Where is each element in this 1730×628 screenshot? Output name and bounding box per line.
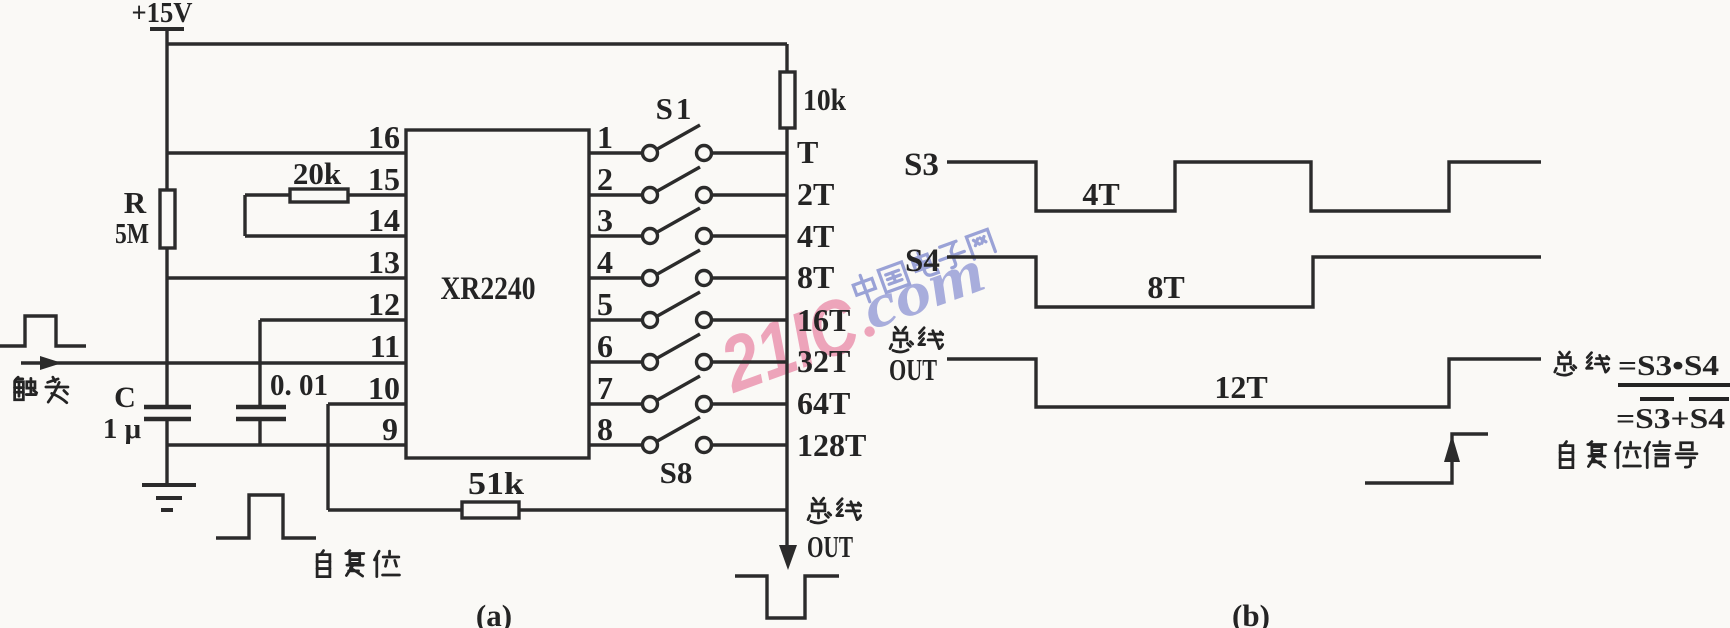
svg-text:12: 12 — [368, 286, 400, 322]
label 总线 (bus) — [808, 498, 861, 523]
wire main vertical from +15V — [165, 30, 168, 190]
svg-text:2T: 2T — [797, 176, 834, 212]
wire pin9 — [167, 443, 406, 446]
svg-text:20k: 20k — [293, 156, 342, 191]
switch row 4 — [589, 276, 642, 279]
svg-text:7: 7 — [597, 370, 613, 406]
wire 20k loop to pin14 — [245, 195, 406, 236]
svg-text:64T: 64T — [797, 385, 850, 421]
resistor 20k leads — [245, 193, 406, 196]
svg-text:=S3+S4: =S3+S4 — [1616, 403, 1725, 435]
wire top rail — [167, 42, 787, 45]
svg-text:XR2240: XR2240 — [441, 271, 536, 307]
IC XR2240 body — [406, 130, 589, 458]
svg-text:1 μ: 1 μ — [103, 413, 142, 445]
bus OUT arrowhead — [779, 545, 797, 570]
wire pin10 — [328, 404, 406, 510]
output pulse icon — [735, 576, 839, 618]
svg-text:S1: S1 — [656, 91, 695, 126]
svg-text:15: 15 — [368, 161, 400, 197]
svg-text:S8: S8 — [660, 455, 693, 490]
svg-text:5: 5 — [597, 286, 613, 322]
svg-text:S3: S3 — [904, 147, 939, 183]
svg-text:6: 6 — [597, 328, 613, 364]
svg-text:C: C — [114, 381, 136, 414]
reset arrowhead — [1444, 435, 1460, 462]
trigger arrowhead — [40, 356, 62, 370]
switch row 7 — [589, 402, 642, 405]
svg-text:14: 14 — [368, 202, 400, 238]
svg-text:10: 10 — [368, 370, 400, 406]
switch row 6 — [589, 360, 642, 363]
svg-text:12T: 12T — [1214, 369, 1267, 405]
svg-text:11: 11 — [370, 328, 400, 364]
label 自复位信号 — [1560, 442, 1697, 468]
switches S1-S8 — [589, 125, 787, 453]
svg-text:OUT: OUT — [807, 529, 853, 564]
svg-text:3: 3 — [597, 202, 613, 238]
label 触发 — [15, 377, 68, 403]
resistor 20k body — [290, 189, 348, 202]
svg-text:(a): (a) — [476, 598, 512, 628]
svg-text:0. 01: 0. 01 — [270, 367, 328, 402]
wire main vertical to ground — [165, 420, 168, 485]
capacitor 0.01 plates — [236, 407, 286, 419]
svg-text:=S3•S4: =S3•S4 — [1618, 350, 1719, 382]
power +15V terminal bar — [150, 27, 184, 31]
wire pin12 — [260, 320, 406, 406]
fraction bar — [1618, 383, 1730, 387]
svg-text:S4: S4 — [905, 243, 940, 279]
svg-text:T: T — [797, 134, 818, 170]
wire pin13 — [167, 276, 406, 279]
ground — [142, 485, 196, 510]
svg-text:8T: 8T — [797, 259, 834, 295]
capacitor C plates — [144, 407, 191, 419]
switch row 2 — [589, 193, 642, 196]
svg-text:13: 13 — [368, 244, 400, 280]
resistor 51k body — [462, 502, 519, 518]
svg-text:5M: 5M — [115, 218, 149, 250]
svg-text:1: 1 — [597, 119, 613, 155]
watermark 21IC.com 中国电子网 — [708, 229, 995, 409]
svg-text:4: 4 — [597, 244, 613, 280]
wire bus vertical — [785, 128, 788, 546]
overline S3 — [1640, 397, 1674, 401]
wire main vertical mid — [165, 248, 168, 406]
waveform S3 — [947, 162, 1541, 211]
waveform S4 — [947, 257, 1541, 307]
label 总线 (waveform) — [890, 327, 943, 352]
svg-text:4T: 4T — [797, 218, 834, 254]
wire pin16 — [167, 151, 406, 154]
svg-text:+15V: +15V — [132, 0, 193, 29]
trigger input pulse icon — [0, 316, 86, 346]
switch row 1 — [589, 151, 642, 154]
reset pulse icon — [216, 495, 316, 538]
wire 0.01 lower lead — [258, 419, 261, 445]
svg-text:8T: 8T — [1147, 269, 1184, 305]
svg-text:128T: 128T — [797, 427, 866, 463]
svg-text:(b): (b) — [1232, 598, 1270, 628]
formula line 1: 总线=S3·S4 — [1555, 352, 1609, 375]
waveform OUT — [947, 359, 1541, 407]
overline S4 — [1689, 397, 1729, 401]
svg-text:OUT: OUT — [889, 352, 937, 387]
svg-text:16T: 16T — [797, 302, 850, 338]
svg-text:9: 9 — [382, 411, 398, 447]
svg-text:2: 2 — [597, 161, 613, 197]
svg-text:16: 16 — [368, 119, 400, 155]
svg-text:8: 8 — [597, 411, 613, 447]
reset step with arrow — [1365, 434, 1488, 483]
wire pin11 trigger line — [21, 361, 406, 364]
svg-text:32T: 32T — [797, 343, 850, 379]
svg-text:10k: 10k — [803, 82, 847, 117]
svg-text:51k: 51k — [468, 465, 524, 501]
svg-text:R: R — [124, 185, 147, 220]
switch row 5 — [589, 318, 642, 321]
switch row 8 — [589, 443, 642, 446]
wire bottom run to bus — [328, 508, 787, 511]
resistor R 5M body — [160, 190, 175, 248]
label 自复位 — [317, 551, 399, 577]
resistor 10k body — [785, 44, 788, 72]
switch row 3 — [589, 234, 642, 237]
svg-text:4T: 4T — [1082, 176, 1119, 212]
